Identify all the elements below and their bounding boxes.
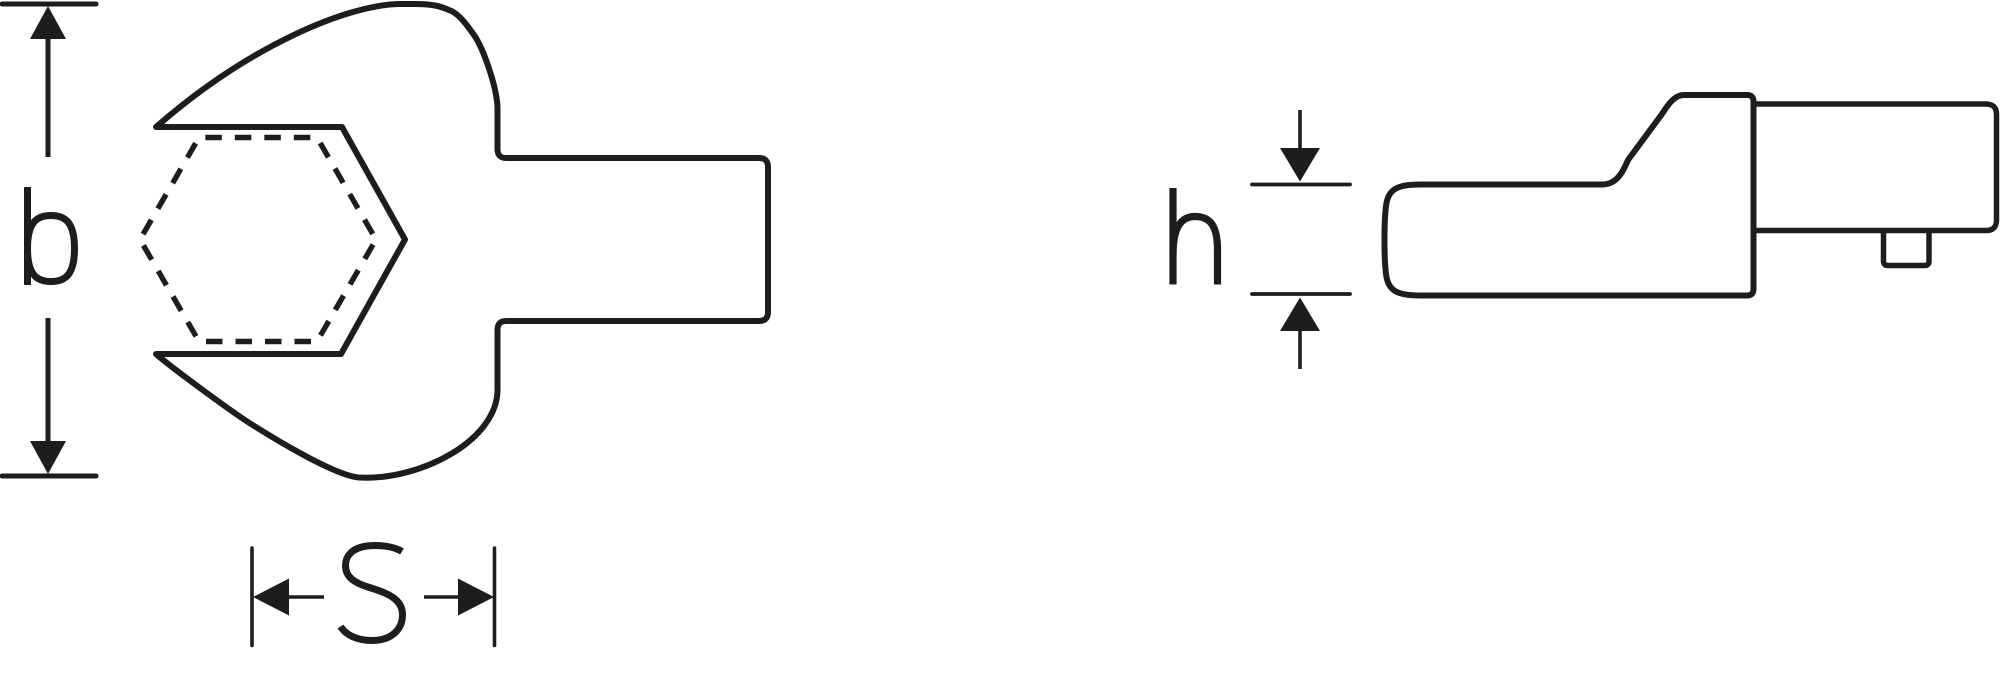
square drive tab (1884, 231, 1930, 266)
label S (341, 546, 403, 641)
dimension b top extension tick (2, 2, 96, 7)
open-end wrench outline (front view) (156, 4, 768, 478)
hexagon nut profile (dashed) (140, 138, 376, 342)
dimension b line upper segment (46, 37, 51, 157)
dimension h top extension tick (1252, 183, 1350, 187)
dimension h arrow down (1280, 148, 1320, 182)
dimension b arrow down (30, 441, 66, 474)
dimension S left extension tick (250, 548, 254, 646)
dimension S right extension tick (493, 548, 497, 646)
dimension b bottom extension tick (2, 474, 96, 479)
dimension b arrow up (30, 6, 66, 39)
dimension h arrow up (1280, 298, 1320, 332)
torque wrench receiver rectangle (1754, 104, 1997, 231)
label b (28, 187, 75, 285)
dimension b line lower segment (46, 318, 51, 443)
dimension S arrow left (253, 579, 289, 616)
dimension S right line (424, 595, 459, 599)
insert tool blade outline (side view) (1384, 95, 1753, 296)
dimension h bottom extension tick (1252, 292, 1350, 296)
dimension h lower line (1298, 330, 1302, 369)
dimension S arrow right (458, 579, 494, 616)
dimension h upper line (1298, 110, 1302, 150)
dimension S left line (288, 595, 324, 599)
label h (1173, 188, 1218, 285)
